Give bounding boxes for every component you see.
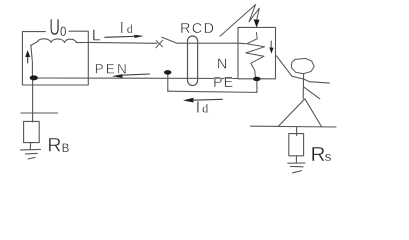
wire: PEN from source (34, 77, 238, 80)
arrow head: Id bottom left arrow (183, 98, 194, 103)
svg-text:I: I (195, 97, 200, 116)
svg-text:PEN: PEN (95, 61, 129, 76)
wire: RB to ground (29, 143, 31, 150)
coil L1 (source winding) (31, 39, 89, 46)
person: head (291, 58, 314, 73)
earth bar at RB (21, 112, 58, 114)
svg-text:L: L (92, 28, 101, 45)
RCD toroid (188, 36, 198, 86)
wire: RS lead (296, 127, 298, 136)
person: left arm touching box (276, 56, 303, 79)
junction dot at source neutral (30, 75, 38, 80)
load box (equipment enclosure) (238, 27, 276, 78)
svg-text:s: s (325, 149, 332, 164)
junction dot PE at load box (253, 77, 261, 81)
source box (transformer winding enclosure) (22, 31, 88, 85)
svg-text:N: N (217, 57, 227, 73)
wire: L from source to fault cross (88, 41, 157, 44)
wire: RS to ground (295, 156, 297, 163)
resistor RS body (289, 134, 304, 156)
person: legs triangle (278, 99, 322, 127)
lightning bolt (fault strike) (220, 5, 259, 37)
wire: PE drop from PEN junction (167, 74, 169, 91)
junction dot PEN/PE split (164, 70, 171, 75)
ground symbol (RB) (21, 149, 41, 159)
arrow line: Id bottom (192, 98, 222, 101)
arrow head: U0 up arrow (25, 50, 30, 57)
fault cross X (156, 40, 163, 48)
arrow head: Id top right arrow (134, 35, 144, 38)
wire: L from blade through RCD to load box (177, 42, 246, 45)
arrow line: PEN left (122, 74, 150, 75)
svg-text:I: I (120, 18, 125, 37)
resistor (load impedance zigzag) (246, 33, 265, 79)
svg-text:RCD: RCD (180, 21, 215, 37)
arrow tail: U0 up arrow (27, 57, 29, 64)
ground symbol (RS) (288, 163, 305, 173)
platform line (251, 125, 337, 128)
node: source neutral junction wire down (31, 46, 33, 79)
svg-text:R: R (311, 143, 326, 166)
person: right arm horizontal (304, 79, 330, 83)
svg-text:d: d (127, 22, 133, 36)
svg-text:PE: PE (213, 75, 234, 91)
arrow head: load current down arrow (269, 47, 273, 53)
arrow line: Id top (105, 36, 136, 37)
arrow head: PEN left arrow (112, 74, 123, 78)
current arrow line in load (270, 41, 272, 48)
svg-text:R: R (47, 135, 61, 157)
wire: RB earth lead (32, 80, 34, 122)
person: body (302, 74, 304, 99)
arrow head: lightning tip (254, 19, 260, 27)
svg-text:0: 0 (60, 24, 66, 39)
switch blade (open point) (162, 37, 177, 43)
wire: PE run to equipment (168, 81, 257, 93)
svg-text:B: B (62, 143, 70, 155)
svg-text:U: U (49, 14, 60, 40)
resistor RB body (24, 121, 40, 142)
person: right arm lower (304, 87, 320, 99)
svg-text:d: d (202, 101, 208, 115)
